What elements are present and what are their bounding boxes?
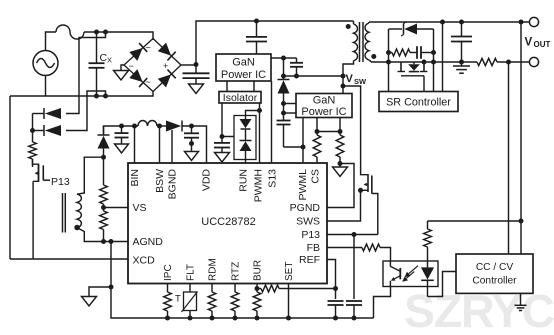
label pin SET xyxy=(284,262,295,281)
node zener mid junction xyxy=(243,134,248,139)
label bridge AC top xyxy=(146,43,151,53)
wire AC line top to bridge xyxy=(84,32,153,40)
label Cx xyxy=(100,52,113,65)
svg-text:V: V xyxy=(525,37,533,49)
transistor Q3 (SR FET) xyxy=(389,62,434,76)
node line-top junction 2 xyxy=(103,30,108,35)
capacitor C-bulk xyxy=(183,65,210,85)
decorative watermark (not labelled further) xyxy=(404,285,554,335)
svg-text:RDM: RDM xyxy=(208,258,219,281)
node SR supply tap xyxy=(440,20,445,25)
op-amp U7 CC/CV Controller xyxy=(456,254,533,293)
zener DZ2 (lower) xyxy=(240,137,252,160)
node sense junction xyxy=(506,60,511,65)
capacitor C-snub xyxy=(410,46,434,59)
wire GaN2 gate leg xyxy=(316,118,318,132)
node PGND junction xyxy=(338,161,343,166)
wire P13 pin xyxy=(327,234,378,236)
label pin RUN xyxy=(238,169,250,192)
svg-text:CC / CV: CC / CV xyxy=(476,262,514,273)
wire VDD rail xyxy=(182,126,207,163)
svg-text:RUN: RUN xyxy=(238,169,250,192)
svg-text:P13: P13 xyxy=(51,176,70,188)
resistor R-IPC xyxy=(164,284,172,319)
svg-text:~: ~ xyxy=(146,43,151,53)
node aux phase dot xyxy=(74,225,80,231)
node BUR ground xyxy=(255,316,260,321)
op-amp U1 UCC28782 xyxy=(128,163,327,284)
label pin SWS xyxy=(296,216,320,228)
wire R-XCD to Q1 xyxy=(32,159,34,167)
diode D-buck-in xyxy=(98,126,110,157)
diode D-boot xyxy=(278,58,290,94)
wire XCD diode cathodes xyxy=(32,114,34,143)
transformer T1 aux winding xyxy=(77,194,81,228)
label pin PGND xyxy=(290,202,321,214)
capacitor C-GaN2 xyxy=(277,113,291,147)
svg-text:IPC: IPC xyxy=(163,264,174,281)
label pin FLT xyxy=(186,264,197,281)
node output cap bottom xyxy=(459,60,464,65)
node GaN1 out junction xyxy=(281,56,286,61)
node SR right FET junction xyxy=(431,60,436,65)
ground C-iso xyxy=(215,153,230,163)
wire aux to buck diode xyxy=(77,157,104,194)
wire output return rail xyxy=(434,61,478,63)
wire CC/CV to opto LED xyxy=(428,272,457,297)
zener DZ1 (upper) xyxy=(240,116,252,137)
wire bottom ground rail xyxy=(111,287,374,318)
zener DZ3 (SR clamp) xyxy=(389,22,434,36)
svg-text:V: V xyxy=(346,73,354,85)
node isolator left junction xyxy=(220,134,225,139)
node C-P13 ground junction xyxy=(352,316,357,321)
node primary phase dot xyxy=(346,24,351,29)
resistor R-XCD xyxy=(29,142,37,159)
wire FB to opto xyxy=(380,248,391,262)
label pin RTZ xyxy=(231,262,242,281)
wire AC source bottom lead xyxy=(45,76,47,97)
capacitor C-out xyxy=(451,22,472,62)
node top rail to GaN1 cap xyxy=(254,19,259,24)
resistor R-snub xyxy=(389,49,411,56)
node PWML return junction xyxy=(301,145,306,150)
node line-top junction 1 xyxy=(94,30,99,35)
node SWS source junction xyxy=(358,188,363,193)
svg-text:P13: P13 xyxy=(301,229,320,241)
node line-bottom junction 1 xyxy=(94,94,99,99)
wire AGND pin xyxy=(104,241,129,243)
wire SR left rail xyxy=(388,29,390,92)
capacitor C-VDD xyxy=(184,126,199,144)
wire PWMH pin xyxy=(259,111,261,164)
ground bridge negative xyxy=(114,65,129,80)
svg-text:GaN: GaN xyxy=(313,95,336,107)
wire BSW pin xyxy=(159,126,161,163)
wire Vsw left link xyxy=(284,75,344,77)
label VOUT xyxy=(525,37,551,50)
wire AC source top lead xyxy=(46,32,57,51)
node BUR junction xyxy=(255,286,260,291)
svg-text:BSW: BSW xyxy=(154,169,166,193)
wire neutral drop to XCD line xyxy=(9,96,11,259)
node output cap top xyxy=(459,20,464,25)
svg-text:VS: VS xyxy=(133,202,147,214)
node FLT ground xyxy=(188,316,193,321)
node RTZ ground xyxy=(233,316,238,321)
capacitor C-P13 xyxy=(346,235,362,319)
node SR source junction xyxy=(422,60,427,65)
node Vsw junction xyxy=(341,74,346,79)
node AGND tap xyxy=(109,239,114,244)
optocoupler U8 light arrows xyxy=(402,266,418,282)
bridge diode BR1-a (left to top) xyxy=(124,39,153,66)
wire GaN1 out xyxy=(271,57,284,59)
node boot diode tap xyxy=(281,74,286,79)
wire isolator out right xyxy=(259,103,261,111)
wire BSW link xyxy=(157,125,166,127)
ground C-bulk xyxy=(189,84,204,94)
wire X-cap discharge tap 2 xyxy=(66,91,106,131)
node VDD cap tap xyxy=(189,124,194,129)
svg-text:SET: SET xyxy=(284,262,295,281)
label bridge AC bottom xyxy=(146,77,151,87)
label pin BUR xyxy=(253,260,264,281)
resistor R-VS-lower xyxy=(100,204,108,242)
svg-text:OUT: OUT xyxy=(534,40,551,49)
op-amp U2 GaN Power IC (high side) xyxy=(216,54,271,81)
svg-text:FB: FB xyxy=(307,242,320,254)
node SET ground xyxy=(286,316,291,321)
svg-text:~: ~ xyxy=(146,77,151,87)
wire secondary bottom lead xyxy=(369,60,389,62)
terminal VOUT- xyxy=(529,57,538,66)
node line-bottom junction 2 xyxy=(103,94,108,99)
diode D2 (XCD neutral sense) xyxy=(33,125,62,136)
capacitor C-REF xyxy=(328,289,344,319)
node gate leg junction xyxy=(315,129,320,134)
wire S13 pin xyxy=(271,81,273,163)
svg-text:+: + xyxy=(163,61,168,71)
wire GaN2 vdd stub a xyxy=(284,94,297,104)
wire SET pin leg xyxy=(288,284,290,319)
transformer T1 core xyxy=(360,22,364,62)
svg-text:BUR: BUR xyxy=(253,260,264,281)
resistor R-VS-upper xyxy=(100,157,108,204)
label pin RDM xyxy=(208,258,219,281)
ground analog xyxy=(82,287,112,306)
ground GaN2 source xyxy=(333,164,348,177)
ground C-VDD xyxy=(185,144,199,161)
svg-text:Isolator: Isolator xyxy=(223,92,258,104)
node XCD cathode junction xyxy=(30,128,35,133)
transformer T1 secondary xyxy=(365,22,369,60)
wire XCD pin xyxy=(10,258,128,260)
label pin S13 xyxy=(267,169,279,188)
label pin VDD xyxy=(201,169,213,192)
wire REF pin xyxy=(327,260,336,289)
wire PWMH jog to clamp box xyxy=(246,111,260,116)
wire PGND jog xyxy=(327,164,354,208)
label pin P13 xyxy=(301,229,320,241)
fuse F1 xyxy=(56,25,84,39)
isolator U3 xyxy=(219,92,261,105)
label pin PWML xyxy=(297,169,309,201)
label bridge plus xyxy=(163,61,168,71)
capacitor C-boot xyxy=(284,58,304,76)
node VS divider bottom junction xyxy=(101,239,106,244)
resistor R-RDM xyxy=(208,284,216,319)
diode D1 (XCD line sense) xyxy=(33,108,62,119)
resistor R-SET xyxy=(257,285,289,292)
terminal VOUT+ xyxy=(529,17,538,26)
bridge diode BR1-b (top to right) xyxy=(153,39,181,66)
resistor R-FB xyxy=(362,244,380,251)
svg-text:RTZ: RTZ xyxy=(231,262,242,281)
svg-text:SR Controller: SR Controller xyxy=(386,97,451,109)
optocoupler U8 phototransistor xyxy=(390,261,400,287)
transformer T1 aux core xyxy=(63,193,66,233)
svg-text:X: X xyxy=(107,56,112,65)
label T (thermistor) xyxy=(175,294,181,305)
wire AGND down leg xyxy=(110,242,112,288)
node SR left RC junction xyxy=(386,50,391,55)
node IPC ground xyxy=(165,316,170,321)
node C-REF ground xyxy=(333,316,338,321)
svg-text:S13: S13 xyxy=(267,169,279,188)
wire opto emitter to ground rail xyxy=(374,287,391,319)
node BSW pin tap xyxy=(157,124,162,129)
node C-boot bottom junction xyxy=(294,74,299,79)
svg-text:Power IC: Power IC xyxy=(301,106,346,118)
wire secondary top rail xyxy=(369,21,530,23)
svg-text:SWS: SWS xyxy=(296,216,320,228)
wire bias link xyxy=(428,220,522,222)
node C-VDD ground tap xyxy=(189,141,194,146)
inductor L-buck xyxy=(138,121,157,126)
node bulk cap junction xyxy=(194,62,199,67)
svg-text:REF: REF xyxy=(299,254,320,266)
label pin BGND xyxy=(167,169,179,200)
label pin IPC xyxy=(163,264,174,281)
node analog ground junction xyxy=(109,285,114,290)
node secondary phase dot xyxy=(371,54,376,59)
label pin CS xyxy=(310,169,322,184)
wire GaN2 vdd stub b xyxy=(284,104,297,114)
ground C-BIN xyxy=(115,144,129,153)
node VS junction xyxy=(101,205,106,210)
svg-text:VDD: VDD xyxy=(201,169,213,192)
node Vsw drain junction xyxy=(341,84,346,89)
resistor R-sense xyxy=(477,58,497,65)
svg-text:BIN: BIN xyxy=(129,169,141,187)
capacitor C-BIN xyxy=(115,126,129,144)
node P13 junction xyxy=(352,232,357,237)
node PWMH junction xyxy=(257,108,262,113)
resistor R-gs xyxy=(336,132,344,164)
label pin BSW xyxy=(154,169,166,193)
svg-text:PWML: PWML xyxy=(297,169,309,201)
svg-text:BGND: BGND xyxy=(167,169,179,200)
svg-text:XCD: XCD xyxy=(133,255,156,267)
node GaN2 vdd junction b xyxy=(281,111,286,116)
svg-text:Power IC: Power IC xyxy=(221,69,266,81)
label P13 (gate net of Q1) xyxy=(51,176,70,188)
wire primary bottom to Vsw xyxy=(343,61,354,94)
svg-text:−: − xyxy=(129,61,134,71)
node RDM ground xyxy=(210,316,215,321)
label pin VS xyxy=(133,202,147,214)
wire BIN pin xyxy=(134,126,136,163)
resistor R-BUR xyxy=(253,284,261,319)
wire isolator left to zener mid xyxy=(222,136,246,138)
optocoupler U8 LED xyxy=(421,261,434,297)
node BIN cap tap xyxy=(119,124,124,129)
ground output (earth) xyxy=(453,62,470,73)
wire SET to REF link xyxy=(289,288,336,290)
node REF junction xyxy=(333,286,338,291)
wire PWML pin xyxy=(302,118,304,164)
svg-text:GaN: GaN xyxy=(232,57,255,69)
wire SWS pin to source xyxy=(327,190,361,221)
wire SR gate to controller xyxy=(423,76,425,92)
svg-text:SW: SW xyxy=(354,77,367,86)
label pin FB xyxy=(307,242,320,254)
label pin REF xyxy=(299,254,320,266)
wire primary top rail xyxy=(196,21,354,65)
node BIN pin tap xyxy=(132,124,137,129)
AC source V1 xyxy=(33,51,58,76)
transistor Q1 (X-cap discharge FET) xyxy=(33,159,51,181)
node SR left FET junction xyxy=(386,60,391,65)
ground CC/CV (earth) xyxy=(515,293,527,310)
resistor R-bias xyxy=(424,221,432,261)
label bridge minus xyxy=(129,61,134,71)
wire Q1 source to XCD line xyxy=(32,181,34,259)
label pin AGND xyxy=(133,236,164,248)
wire gate-source link xyxy=(317,131,340,133)
bridge diode BR1-c (left to bottom) xyxy=(124,65,153,92)
svg-text:UCC28782: UCC28782 xyxy=(201,216,255,228)
node GaN2 vdd junction a xyxy=(281,101,286,106)
wire aux bottom to AGND xyxy=(77,228,104,242)
capacitor Cx xyxy=(89,32,105,96)
node source leg junction xyxy=(338,129,343,134)
svg-text:PWMH: PWMH xyxy=(253,169,265,202)
transformer T1 primary xyxy=(354,21,358,61)
svg-text:T: T xyxy=(175,294,181,305)
zener clamp box U4 xyxy=(234,116,256,160)
svg-text:Controller: Controller xyxy=(472,276,517,287)
label Vsw xyxy=(346,73,368,86)
op-amp U6 SR Controller xyxy=(379,92,458,112)
node SR right RC junction xyxy=(431,50,436,55)
wire GaN1 to isolator pin A xyxy=(226,81,228,92)
wire Vsw to SWS FET drain xyxy=(343,86,368,175)
wire SR controller supply xyxy=(442,22,444,92)
node bias resistor tap xyxy=(519,219,524,224)
resistor R-RTZ xyxy=(231,284,239,319)
capacitor C-iso xyxy=(214,137,230,153)
label pin XCD xyxy=(133,255,156,267)
wire GaN2 source leg xyxy=(339,118,341,132)
optocoupler U8 box xyxy=(383,261,438,287)
wire BGND pin xyxy=(171,130,173,163)
thermistor RT1 (FLT) xyxy=(182,284,198,319)
wire isolator out left xyxy=(221,103,223,137)
bridge diode BR1-d (bottom to right) xyxy=(153,65,181,92)
wire SR right rail xyxy=(433,29,435,92)
svg-text:AGND: AGND xyxy=(133,236,164,248)
wire sense to terminal xyxy=(497,61,530,63)
transistor Q2 (SWS FET) xyxy=(361,174,378,235)
resistor R-CS xyxy=(313,132,321,164)
wire X-cap discharge tap 1 xyxy=(66,32,106,114)
svg-text:FLT: FLT xyxy=(186,264,197,281)
wire VS pin xyxy=(104,207,129,209)
svg-text:PGND: PGND xyxy=(290,202,321,214)
svg-text:CS: CS xyxy=(310,169,322,184)
wire FB pin xyxy=(327,247,362,249)
capacitor C-GaN1 (VIN bypass) xyxy=(246,21,267,54)
wire clamp to RUN pin xyxy=(245,160,247,164)
wire CC/CV supply feed xyxy=(520,22,522,254)
diode D-buck-fw xyxy=(166,121,182,132)
label pin BIN xyxy=(129,169,141,187)
wire C-GaN2 return to PWML xyxy=(284,146,304,148)
wire bridge positive to bulk cap xyxy=(181,64,196,66)
node VOUT+ tap xyxy=(519,20,524,25)
node buck diode anode junction xyxy=(101,155,106,160)
wire GaN1 to isolator pin B xyxy=(253,81,255,92)
wire AC neutral rail xyxy=(10,92,153,97)
label pin PWMH xyxy=(253,169,265,202)
op-amp U5 GaN Power IC (low side) xyxy=(296,94,352,119)
wire BIN rail xyxy=(104,126,139,135)
wire CC/CV sense feed xyxy=(508,62,510,254)
